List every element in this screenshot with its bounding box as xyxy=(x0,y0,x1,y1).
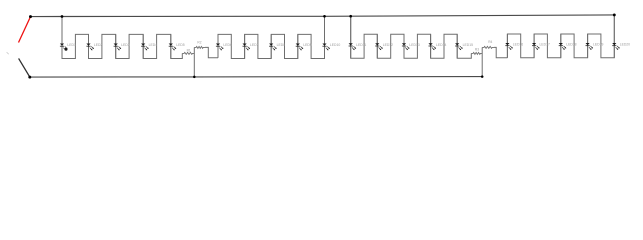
wire string4 zigzag run xyxy=(507,15,614,58)
led LED6 xyxy=(216,34,232,57)
led LED14 xyxy=(429,34,447,58)
resistor R4 xyxy=(482,40,494,48)
junction top rail right end xyxy=(613,13,616,16)
svg-text:LED1: LED1 xyxy=(67,43,76,47)
svg-text:LED6: LED6 xyxy=(223,43,232,47)
svg-text:R3: R3 xyxy=(475,48,479,52)
svg-text:LED7: LED7 xyxy=(250,43,259,47)
led LED7 xyxy=(243,34,259,58)
wire V- black lead xyxy=(19,58,30,77)
wire V+ red lead xyxy=(19,17,31,43)
wire stub marker xyxy=(7,52,9,54)
junction string3 top tap xyxy=(349,15,352,18)
svg-text:LED8: LED8 xyxy=(277,43,286,47)
svg-text:LED12: LED12 xyxy=(383,43,393,47)
svg-text:LED3: LED3 xyxy=(121,43,130,47)
led LED17 xyxy=(532,34,550,58)
wire bottom rail (V-) xyxy=(30,76,482,79)
svg-text:LED16: LED16 xyxy=(513,43,523,47)
led LED10 xyxy=(322,16,340,58)
svg-text:LED11: LED11 xyxy=(356,43,366,47)
svg-text:LED20: LED20 xyxy=(620,43,630,47)
led LED13 xyxy=(402,34,420,58)
svg-text:LED13: LED13 xyxy=(409,43,419,47)
svg-text:LED4: LED4 xyxy=(149,43,158,47)
svg-text:R2: R2 xyxy=(197,40,201,44)
led LED9 xyxy=(296,34,312,58)
svg-text:LED9: LED9 xyxy=(303,43,312,47)
led LED8 xyxy=(269,34,285,58)
junction bottom rail left end xyxy=(28,76,31,79)
wire string3 zigzag run xyxy=(351,16,472,58)
junction top rail left end xyxy=(29,15,32,18)
led LED1 xyxy=(60,17,76,59)
led LED18 xyxy=(559,34,577,58)
junction string1 top tap xyxy=(61,15,64,18)
svg-text:LED2: LED2 xyxy=(94,43,103,47)
wire R2 to string2 jog xyxy=(205,47,218,57)
led LED11 xyxy=(349,16,367,58)
wire node Y drop xyxy=(481,47,483,76)
LED1 arrow blob xyxy=(65,48,68,51)
svg-text:R1: R1 xyxy=(187,49,191,53)
svg-text:LED5: LED5 xyxy=(176,43,185,47)
led LED4 xyxy=(141,34,157,58)
led LED20 xyxy=(612,15,630,58)
wire string1 zigzag run xyxy=(62,17,182,59)
svg-text:LED17: LED17 xyxy=(540,43,550,47)
svg-text:LED14: LED14 xyxy=(436,43,446,47)
resistor R2 xyxy=(194,40,205,48)
resistor R3 xyxy=(471,48,482,55)
wire string2 zigzag run xyxy=(218,16,325,58)
led LED15 xyxy=(455,34,473,58)
wire R4 to string4 jog xyxy=(494,47,507,57)
led LED3 xyxy=(114,34,130,58)
led LED12 xyxy=(375,34,393,58)
wire node X drop xyxy=(193,47,195,77)
svg-text:LED19: LED19 xyxy=(593,43,603,47)
wire top rail (V+) xyxy=(31,15,615,17)
resistor R1 xyxy=(182,49,194,55)
led LED2 xyxy=(86,34,102,58)
svg-text:R4: R4 xyxy=(488,40,492,44)
junction string2 top tap xyxy=(323,15,326,18)
svg-text:LED18: LED18 xyxy=(566,43,576,47)
led LED19 xyxy=(586,34,604,58)
junction node X on bottom rail xyxy=(193,76,196,79)
svg-text:LED15: LED15 xyxy=(463,43,473,47)
junction bottom rail right end xyxy=(481,75,484,78)
led LED16 xyxy=(505,34,523,58)
svg-text:LED10: LED10 xyxy=(330,43,340,47)
led LED5 xyxy=(169,34,185,58)
